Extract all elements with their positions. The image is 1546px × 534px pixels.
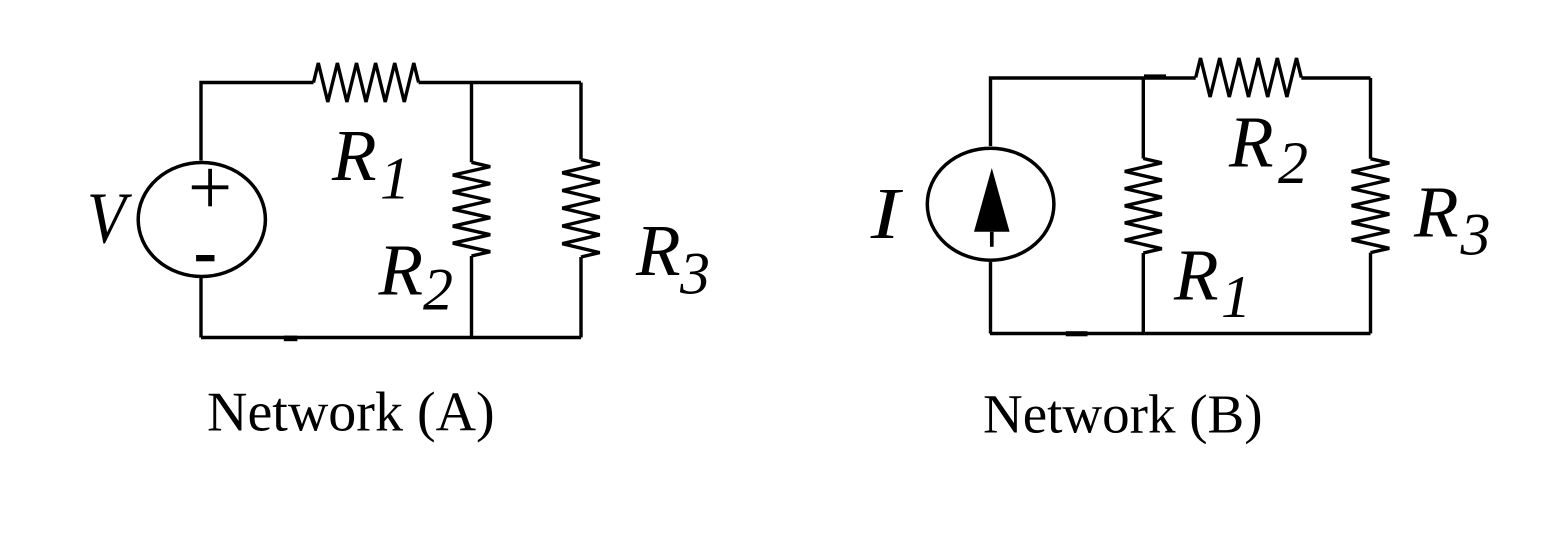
wire: B middle branch bottom (R1 to bottom wire) <box>1142 253 1145 334</box>
resistor R3 (vertical zigzag, Network A) <box>562 160 599 258</box>
minus sign of source V <box>196 255 214 261</box>
voltage source V (circle, Network A) <box>138 163 265 277</box>
wire: B top-right segment (R2 to corner) <box>1301 76 1370 79</box>
wire: B right vertical below R3 <box>1369 253 1372 334</box>
resistor R1 (vertical zigzag, Network B) <box>1125 159 1162 254</box>
svg-text:R: R <box>378 230 424 311</box>
arrow of current source I <box>974 168 1010 232</box>
current source I (circle, Network B) <box>927 148 1054 260</box>
wire: B top-left segment (corner to R2) <box>991 78 1196 146</box>
svg-text:Network (A): Network (A) <box>207 382 495 444</box>
wire: A right vertical down to R3 <box>579 83 582 160</box>
wire: A top-right segment (R1 to top-right corner) <box>419 81 581 84</box>
svg-text:Network (B): Network (B) <box>983 383 1263 444</box>
wire: B right vertical down to R3 <box>1369 78 1372 159</box>
resistor R1 (horizontal zigzag, Network A) <box>314 63 419 102</box>
resistor R2 (vertical zigzag, Network A) <box>453 162 490 256</box>
wire: A right vertical below R3 <box>579 257 582 338</box>
label V <box>87 178 133 259</box>
plus sign of source V <box>192 169 229 207</box>
wire: A middle branch bottom (R2 to bottom wire) <box>470 256 473 338</box>
svg-text:3: 3 <box>679 240 710 306</box>
wire: A top-left segment (corner to R1) <box>201 83 314 161</box>
svg-text:I: I <box>870 174 904 254</box>
junction overlap tick on B bottom wire <box>1066 331 1088 336</box>
svg-text:R: R <box>635 210 681 291</box>
wire: B left below source <box>989 262 992 334</box>
resistor R3 (vertical zigzag, Network B) <box>1352 159 1390 253</box>
svg-text:R: R <box>331 115 377 196</box>
wire: B middle branch top (junction to R1) <box>1142 78 1145 159</box>
svg-text:V: V <box>87 178 133 259</box>
wire: A bottom <box>201 336 581 339</box>
svg-text:R: R <box>1173 235 1219 316</box>
svg-text:R: R <box>1413 172 1459 253</box>
svg-text:R: R <box>1228 102 1274 183</box>
resistor R2 (horizontal zigzag, Network B) <box>1196 58 1302 97</box>
svg-text:1: 1 <box>380 145 410 211</box>
junction overlap tick on B top wire <box>1144 74 1166 78</box>
wire: A left below source <box>199 278 202 338</box>
wire: A middle branch top (junction to R2) <box>470 83 473 163</box>
svg-text:2: 2 <box>423 257 453 323</box>
svg-text:1: 1 <box>1221 264 1251 330</box>
label I <box>870 174 904 254</box>
wire: B bottom <box>990 332 1371 335</box>
svg-text:2: 2 <box>1278 130 1308 196</box>
junction overlap tick on A bottom wire <box>284 336 298 342</box>
svg-text:3: 3 <box>1460 202 1491 268</box>
